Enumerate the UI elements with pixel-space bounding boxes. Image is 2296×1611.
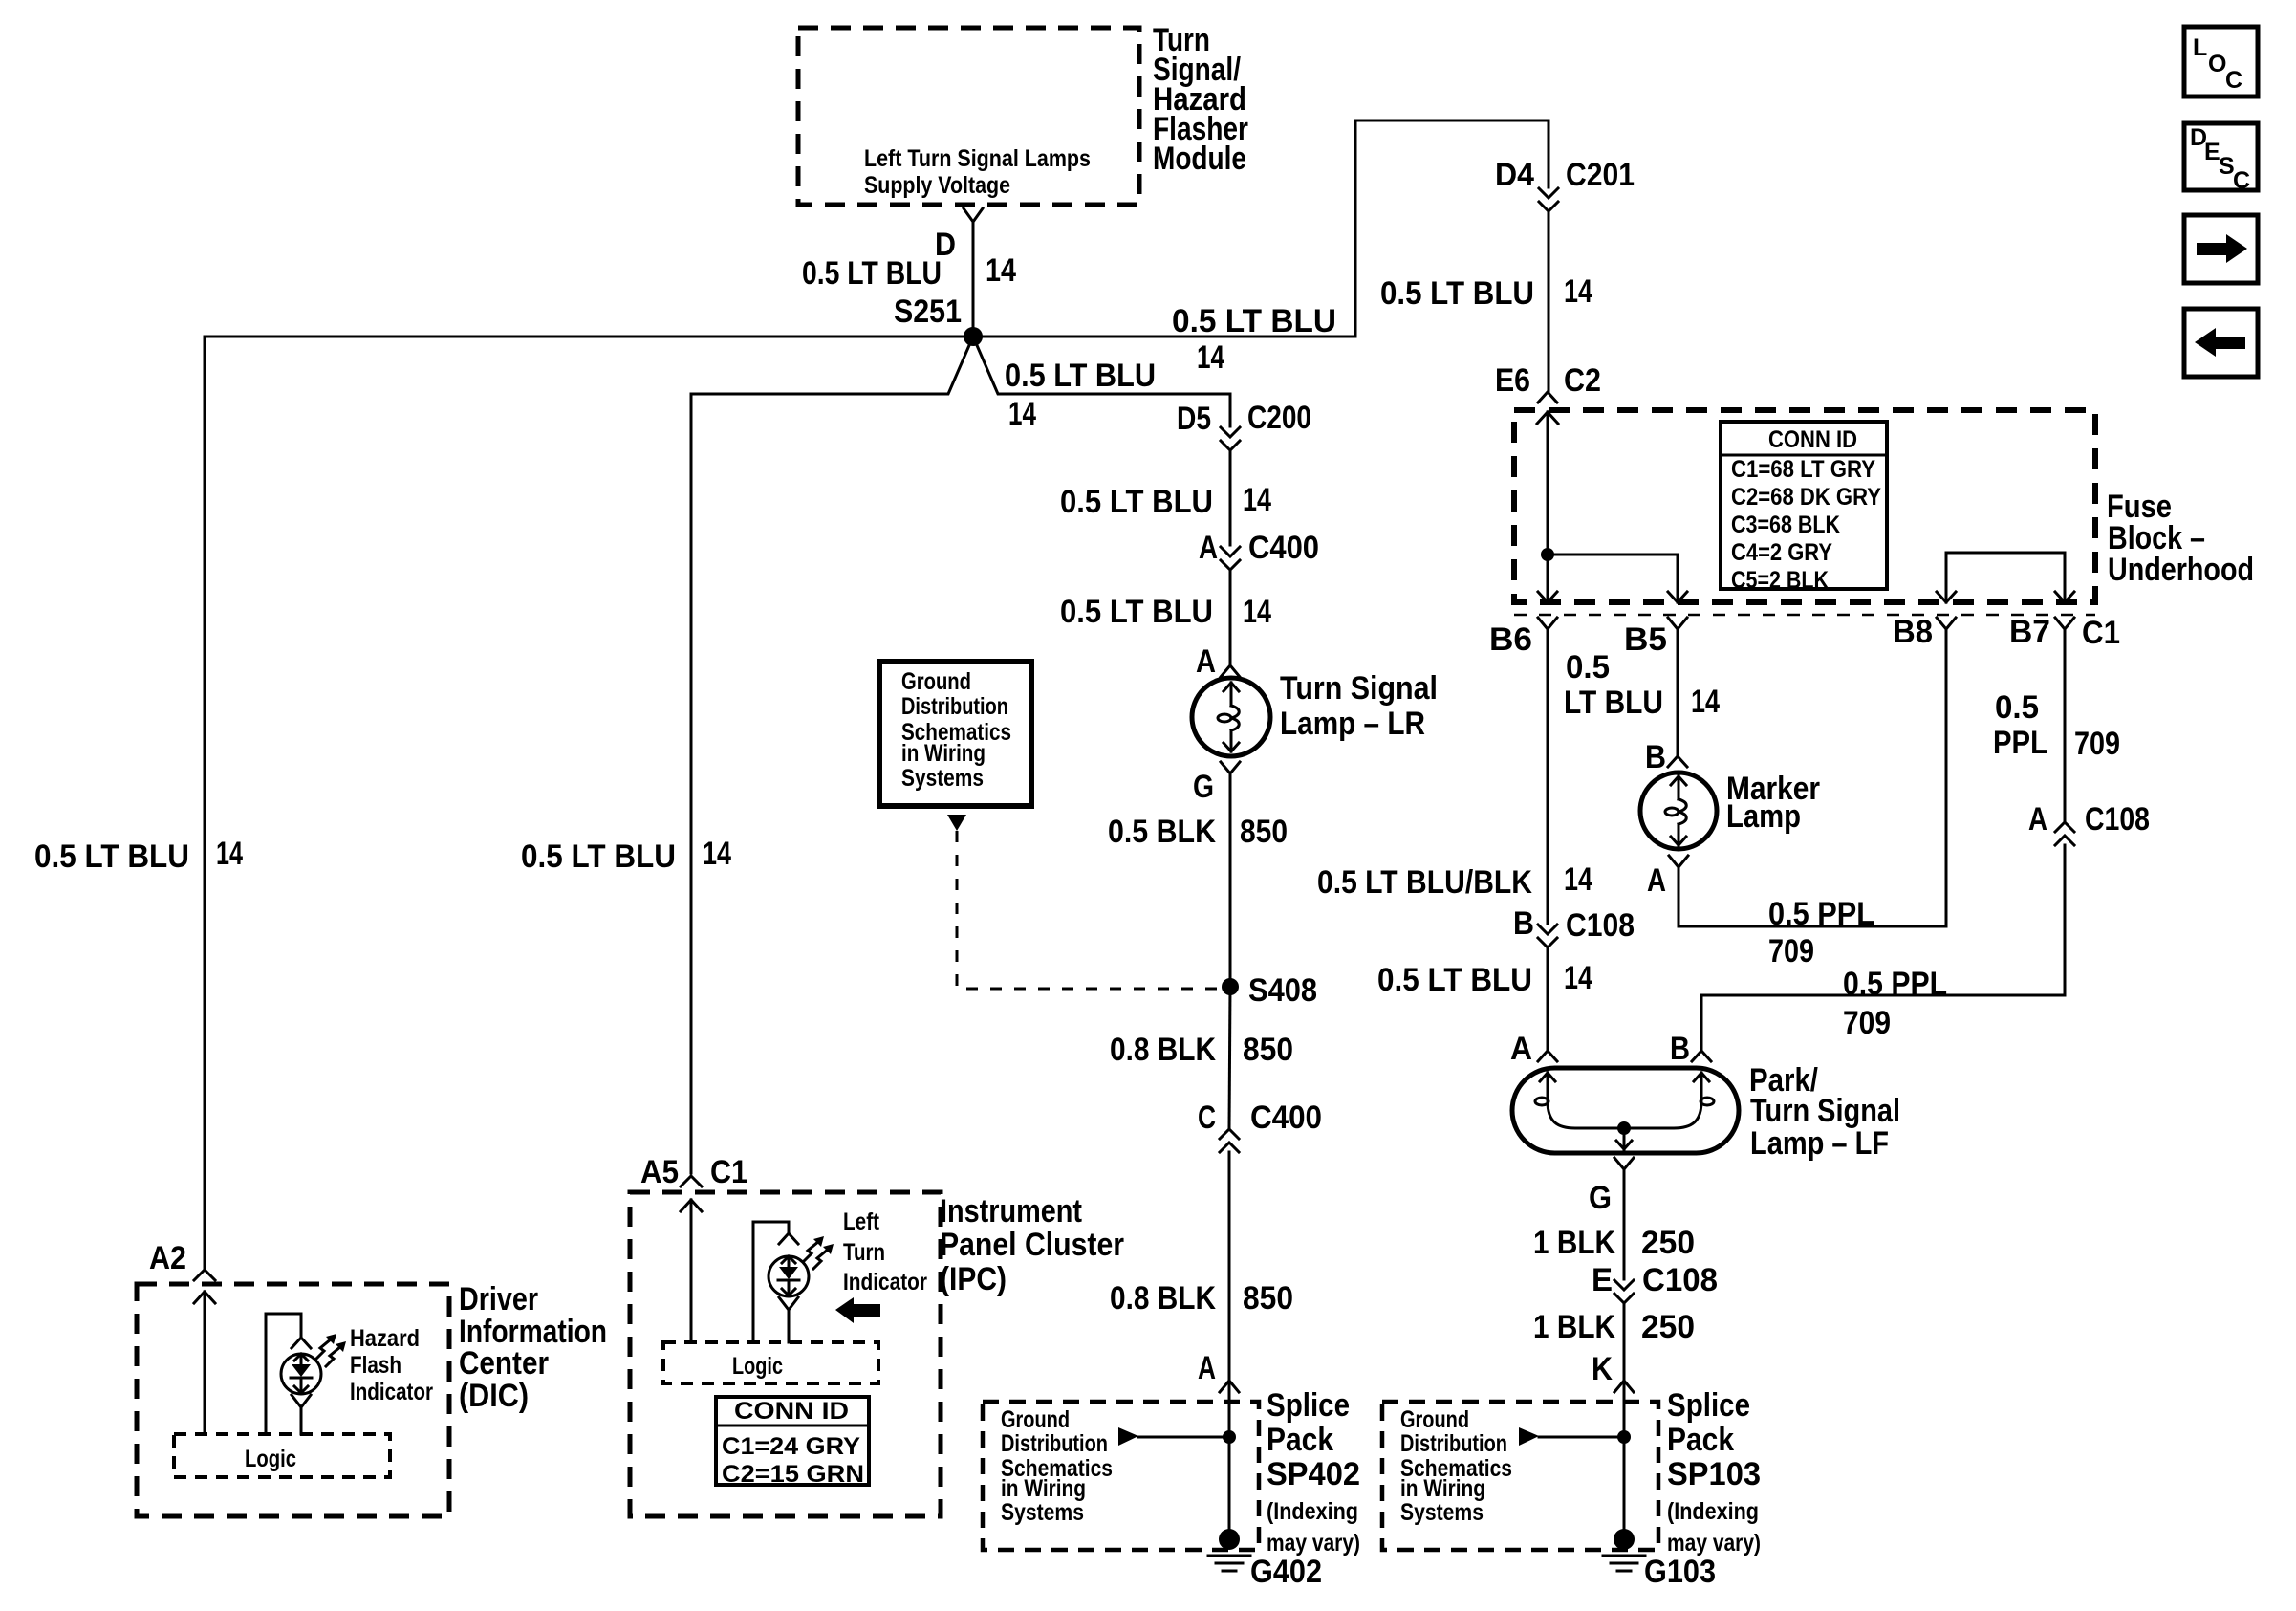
wire: C400 to Turn Signal Lamp LR pin A — [1060, 570, 1271, 665]
svg-text:Driver: Driver — [459, 1281, 538, 1317]
svg-text:Center: Center — [459, 1345, 549, 1382]
svg-text:B: B — [1513, 905, 1534, 942]
wire: fuse block internal junction to pin B5 (arrow down) — [1548, 555, 1687, 602]
svg-text:Lamp – LR: Lamp – LR — [1280, 706, 1425, 742]
svg-text:0.8 BLK: 0.8 BLK — [1110, 1032, 1216, 1068]
table: CONN ID (IPC) — [716, 1397, 869, 1488]
svg-text:A: A — [1510, 1031, 1532, 1067]
svg-text:Systems: Systems — [901, 765, 984, 792]
svg-text:Supply Voltage: Supply Voltage — [864, 172, 1010, 199]
svg-text:in Wiring: in Wiring — [1001, 1475, 1086, 1502]
svg-text:L: L — [2193, 34, 2207, 61]
svg-text:1 BLK: 1 BLK — [1533, 1309, 1615, 1345]
connector C201 pin D4 (double chevron) — [1495, 157, 1635, 211]
fuse block: Fuse Block - Underhood (dashed box) — [1514, 410, 2095, 615]
wire: C108 pin A to Park/Turn Signal Lamp LF pin B — [1701, 845, 2065, 1051]
wire: S408 down to connector C400 pin C — [1110, 987, 1293, 1128]
wire: fuse block internal E6 entry arrow down to junction — [1537, 412, 1558, 555]
pin B5 terminal of fuse block connector C1 — [1624, 618, 1687, 658]
svg-text:A: A — [2028, 801, 2047, 838]
pin E6 / C2 terminal at fuse block — [1495, 362, 1601, 403]
svg-text:B6: B6 — [1489, 621, 1532, 658]
svg-text:C2: C2 — [1564, 362, 1601, 399]
pin B6 terminal of fuse block connector C1 — [1489, 618, 1557, 658]
dashed reference link to S408 — [957, 831, 1222, 989]
svg-text:0.5 LT BLU: 0.5 LT BLU — [521, 838, 676, 875]
svg-text:Ground: Ground — [1400, 1406, 1469, 1433]
svg-text:E: E — [1592, 1262, 1613, 1298]
logic block of DIC (dashed box) — [174, 1434, 390, 1477]
svg-text:C: C — [2225, 67, 2242, 94]
svg-text:B: B — [1645, 739, 1666, 775]
svg-text:A5: A5 — [640, 1154, 679, 1190]
svg-text:0.5 LT BLU/BLK: 0.5 LT BLU/BLK — [1317, 864, 1532, 901]
note pointer triangle — [947, 815, 966, 831]
svg-text:A: A — [1196, 643, 1216, 680]
label: Park/Turn Signal Lamp - LF — [1749, 1062, 1900, 1162]
svg-text:0.5 LT BLU: 0.5 LT BLU — [1380, 275, 1534, 312]
label: Hazard Flash Indicator — [350, 1325, 433, 1405]
pin B terminal of Marker Lamp — [1645, 739, 1687, 775]
wire: B6 down to connector C108 pin B — [1317, 629, 1592, 924]
svg-text:Splice: Splice — [1267, 1387, 1350, 1424]
pin A terminal of Park/Turn Signal Lamp LF — [1510, 1031, 1557, 1067]
svg-text:Instrument: Instrument — [940, 1193, 1082, 1230]
svg-text:CONN ID: CONN ID — [734, 1398, 849, 1425]
logic block of IPC (dashed box) — [663, 1342, 878, 1383]
pin B7 terminal of fuse block connector C1 — [2009, 614, 2120, 651]
wire: IPC internal A5 entry arrow down to Logic — [681, 1200, 702, 1342]
connector C400 pin A (double chevron) — [1199, 530, 1319, 570]
label: Driver Information Center (DIC) — [459, 1281, 607, 1414]
wire: lamp LR pin G down to splice S408 — [1108, 773, 1288, 987]
label: Splice Pack SP402 — [1267, 1387, 1360, 1557]
svg-text:Hazard: Hazard — [350, 1325, 420, 1352]
svg-text:C: C — [1198, 1099, 1216, 1136]
connector C108 pin E (double chevron down) — [1592, 1262, 1718, 1303]
wire: fuse block internal junction to pin B6 (arrow down) — [1538, 555, 1557, 602]
legend right-arrow box — [2184, 215, 2258, 283]
svg-text:Ground: Ground — [1001, 1406, 1070, 1433]
svg-text:C200: C200 — [1247, 400, 1311, 436]
svg-text:Pack: Pack — [1667, 1422, 1734, 1458]
svg-text:(IPC): (IPC) — [940, 1261, 1007, 1297]
module U3: Instrument Panel Cluster IPC (dashed box) — [630, 1192, 941, 1516]
LED D1: Hazard Flash Indicator — [266, 1314, 346, 1434]
svg-text:14: 14 — [216, 836, 243, 872]
pin G terminal of Park/Turn Signal Lamp LF — [1589, 1158, 1634, 1216]
svg-text:C1=24 GRY: C1=24 GRY — [722, 1433, 860, 1460]
svg-text:S251: S251 — [894, 294, 962, 330]
svg-text:Flash: Flash — [350, 1352, 401, 1379]
svg-text:850: 850 — [1240, 814, 1288, 850]
svg-text:C4=2 GRY: C4=2 GRY — [1731, 539, 1832, 566]
svg-text:709: 709 — [1768, 933, 1814, 969]
ground G402 — [1208, 1529, 1322, 1590]
svg-text:14: 14 — [1564, 273, 1592, 310]
wire: S251 left to DIC pin A2 — [34, 337, 973, 1268]
wire: S251 fork right branch to connector C200 pin D5 — [973, 337, 1230, 432]
LED D2: Left Turn Indicator — [753, 1222, 834, 1342]
svg-text:D5: D5 — [1177, 401, 1211, 437]
svg-text:may vary): may vary) — [1667, 1530, 1761, 1557]
connector C200 pin D5 (double chevron) — [1177, 400, 1311, 450]
svg-text:in Wiring: in Wiring — [1400, 1475, 1485, 1502]
svg-text:Lamp – LF: Lamp – LF — [1750, 1125, 1889, 1162]
svg-text:850: 850 — [1243, 1032, 1293, 1068]
svg-text:B: B — [1670, 1031, 1690, 1067]
svg-text:Ground: Ground — [901, 668, 971, 695]
svg-text:C108: C108 — [1642, 1262, 1718, 1298]
svg-text:Distribution: Distribution — [1400, 1430, 1507, 1457]
ground G103 — [1603, 1529, 1716, 1590]
pin B terminal of Park/Turn Signal Lamp LF — [1670, 1031, 1711, 1067]
svg-text:LT BLU: LT BLU — [1564, 685, 1663, 721]
pin G terminal of Turn Signal Lamp LR — [1193, 762, 1240, 805]
svg-text:O: O — [2208, 51, 2226, 77]
svg-text:C108: C108 — [1566, 907, 1635, 944]
svg-text:G: G — [1589, 1180, 1612, 1216]
svg-text:Systems: Systems — [1001, 1499, 1084, 1526]
svg-text:14: 14 — [1564, 960, 1592, 996]
svg-text:0.8 BLK: 0.8 BLK — [1110, 1280, 1216, 1317]
svg-text:Turn Signal: Turn Signal — [1750, 1093, 1900, 1129]
svg-text:0.5 PPL: 0.5 PPL — [1768, 896, 1874, 932]
svg-text:C1=68 LT GRY: C1=68 LT GRY — [1731, 456, 1875, 483]
svg-text:14: 14 — [1564, 861, 1592, 898]
legend left-arrow box — [2184, 309, 2258, 377]
label: Turn Signal Lamp - LR — [1280, 670, 1438, 742]
svg-text:S408: S408 — [1248, 972, 1317, 1009]
module U2: Driver Information Center DIC (dashed box) — [137, 1284, 449, 1516]
legend DESC box — [2184, 123, 2258, 194]
svg-text:C108: C108 — [2085, 801, 2150, 838]
lamp E3: Park/Turn Signal Lamp - LF (dual filament) — [1512, 1068, 1739, 1153]
wire: S251 fork left branch to IPC pin A5 — [521, 337, 973, 1173]
svg-text:C: C — [2233, 167, 2250, 194]
svg-text:0.5 BLK: 0.5 BLK — [1108, 814, 1216, 850]
pin A5 / C1 terminal of IPC — [640, 1154, 747, 1190]
svg-text:14: 14 — [1243, 482, 1271, 518]
svg-text:A: A — [1198, 1350, 1216, 1386]
svg-text:14: 14 — [1243, 594, 1271, 630]
svg-text:Turn: Turn — [843, 1239, 885, 1266]
svg-text:C3=68 BLK: C3=68 BLK — [1731, 512, 1840, 538]
pin A terminal at SP402 — [1198, 1350, 1239, 1392]
svg-text:C201: C201 — [1566, 157, 1635, 193]
svg-text:A: A — [1647, 862, 1666, 899]
svg-text:Module: Module — [1153, 141, 1246, 177]
label: Marker Lamp — [1726, 771, 1820, 835]
svg-text:C400: C400 — [1248, 530, 1319, 566]
svg-text:may vary): may vary) — [1267, 1530, 1360, 1557]
svg-text:Left: Left — [843, 1208, 880, 1235]
svg-text:Turn Signal: Turn Signal — [1280, 670, 1438, 707]
svg-text:14: 14 — [703, 836, 731, 872]
svg-text:Distribution: Distribution — [901, 693, 1008, 720]
svg-text:G103: G103 — [1644, 1554, 1716, 1590]
svg-text:CONN ID: CONN ID — [1768, 426, 1857, 453]
pin A terminal of Marker Lamp — [1647, 856, 1688, 899]
wire: C201 down to fuse block pin E6 — [1380, 211, 1592, 392]
svg-text:G: G — [1193, 769, 1214, 805]
splice S408 — [1222, 972, 1317, 1009]
svg-text:0.5: 0.5 — [1566, 649, 1610, 686]
svg-text:B8: B8 — [1893, 614, 1933, 650]
label: module title — [1153, 22, 1248, 177]
wire: lamp LF pin G down to connector C108 pin E — [1533, 1169, 1695, 1279]
svg-text:Systems: Systems — [1400, 1499, 1484, 1526]
svg-text:709: 709 — [2074, 726, 2120, 762]
svg-text:0.5: 0.5 — [1995, 689, 2039, 726]
svg-text:Lamp: Lamp — [1726, 798, 1801, 835]
pointer arrow (filled left arrow) in IPC — [835, 1297, 880, 1323]
svg-text:(Indexing: (Indexing — [1667, 1498, 1759, 1525]
pin B8 terminal of fuse block connector C1 — [1893, 614, 1956, 650]
svg-text:K: K — [1592, 1351, 1613, 1387]
note box: Ground Distribution Schematics in Wiring Systems — [879, 662, 1031, 806]
wire: fuse block internal link B8 to B7 (arrows down) — [1937, 553, 2074, 602]
connector C108 pin B (double chevron down) — [1513, 905, 1635, 947]
svg-text:0.5 LT BLU: 0.5 LT BLU — [1172, 303, 1336, 339]
label: Instrument Panel Cluster (IPC) — [940, 1193, 1124, 1297]
svg-text:0.5 LT BLU: 0.5 LT BLU — [1060, 484, 1213, 520]
pin D terminal of flasher module — [935, 208, 983, 263]
table: CONN ID (fuse block) — [1721, 422, 1887, 594]
svg-text:C2=68 DK GRY: C2=68 DK GRY — [1731, 484, 1881, 511]
svg-text:(DIC): (DIC) — [459, 1378, 529, 1414]
svg-text:Indicator: Indicator — [843, 1269, 927, 1295]
wire: B5 down to Marker Lamp pin B — [1564, 629, 1720, 756]
svg-text:Indicator: Indicator — [350, 1379, 433, 1405]
svg-text:Logic: Logic — [732, 1353, 783, 1380]
svg-text:Logic: Logic — [245, 1446, 296, 1472]
splice S251 — [894, 294, 983, 346]
svg-text:Panel Cluster: Panel Cluster — [940, 1227, 1124, 1263]
svg-text:Left Turn Signal Lamps: Left Turn Signal Lamps — [864, 145, 1091, 172]
module U1: Turn Signal/Hazard Flasher Module (dashed box) — [798, 28, 1139, 205]
pin K terminal at SP103 — [1592, 1351, 1634, 1392]
svg-text:1 BLK: 1 BLK — [1533, 1225, 1615, 1261]
svg-text:G402: G402 — [1250, 1554, 1322, 1590]
svg-text:0.5 PPL: 0.5 PPL — [1843, 966, 1947, 1002]
svg-text:B7: B7 — [2009, 614, 2050, 650]
svg-text:A: A — [1199, 530, 1218, 566]
svg-text:C400: C400 — [1250, 1099, 1322, 1136]
svg-text:250: 250 — [1641, 1225, 1695, 1261]
svg-text:A2: A2 — [149, 1240, 186, 1276]
pin A terminal of Turn Signal Lamp LR — [1196, 643, 1240, 680]
svg-text:0.5 LT BLU: 0.5 LT BLU — [802, 255, 942, 292]
svg-text:0.5 LT BLU: 0.5 LT BLU — [1377, 962, 1532, 998]
svg-text:0.5 LT BLU: 0.5 LT BLU — [1060, 594, 1213, 630]
wire: flasher pin D down to splice S251 — [802, 222, 1016, 337]
junction inside fuse block — [1541, 548, 1554, 561]
svg-text:14: 14 — [1197, 339, 1224, 376]
svg-text:B5: B5 — [1624, 621, 1667, 658]
wire: Marker Lamp pin A to fuse block pin B8 — [1679, 629, 1946, 969]
svg-text:in Wiring: in Wiring — [901, 740, 986, 767]
pin A2 terminal of DIC — [149, 1240, 215, 1280]
svg-text:C2=15 GRN: C2=15 GRN — [722, 1461, 864, 1488]
connector C400 pin C (double chevron up) — [1198, 1099, 1322, 1152]
svg-text:14: 14 — [986, 252, 1016, 289]
svg-text:850: 850 — [1243, 1280, 1293, 1317]
svg-text:E6: E6 — [1495, 362, 1530, 399]
wire: C200 to connector C400 pin A — [1060, 450, 1271, 545]
svg-text:709: 709 — [1843, 1005, 1891, 1041]
wire: C400 pin C down to Splice Pack SP402 pin A — [1110, 1152, 1293, 1539]
svg-text:PPL: PPL — [1993, 725, 2047, 761]
svg-text:Distribution: Distribution — [1001, 1430, 1108, 1457]
svg-text:250: 250 — [1641, 1309, 1695, 1345]
svg-text:Underhood: Underhood — [2108, 552, 2254, 588]
label: Fuse Block - Underhood — [2107, 489, 2254, 588]
label: Splice Pack SP103 — [1667, 1387, 1761, 1557]
lamp E2: Marker Lamp — [1640, 773, 1717, 849]
wire: B7 down to connector C108 pin A — [1993, 629, 2120, 821]
svg-text:D4: D4 — [1495, 157, 1534, 193]
svg-text:0.5 LT BLU: 0.5 LT BLU — [34, 838, 189, 875]
wire: DIC internal A2 entry arrow down to Logic — [194, 1292, 215, 1434]
connector C108 pin A (double chevron up) — [2028, 801, 2150, 845]
lamp E1: Turn Signal Lamp - LR — [1192, 678, 1270, 756]
legend LOC box — [2184, 27, 2258, 97]
wire: C108 pin E down to Splice Pack SP103 pin K — [1533, 1303, 1695, 1539]
svg-text:SP402: SP402 — [1267, 1456, 1360, 1492]
svg-text:SP103: SP103 — [1667, 1456, 1761, 1492]
svg-text:14: 14 — [1008, 396, 1036, 432]
SP103 internal pointer arrow and junction — [1519, 1427, 1631, 1446]
svg-text:(Indexing: (Indexing — [1267, 1498, 1358, 1525]
svg-text:C1: C1 — [710, 1154, 747, 1190]
label: Left Turn Indicator — [843, 1208, 927, 1295]
svg-text:Splice: Splice — [1667, 1387, 1750, 1424]
splice pack SP103 (dashed box) — [1382, 1402, 1658, 1550]
svg-text:14: 14 — [1691, 684, 1720, 720]
splice pack SP402 (dashed box) — [983, 1402, 1259, 1550]
svg-text:C1: C1 — [2082, 615, 2120, 651]
wire: C108 pin B to Park/Turn Signal Lamp LF pin A — [1377, 947, 1592, 1051]
svg-text:C5=2 BLK: C5=2 BLK — [1731, 567, 1829, 594]
svg-text:0.5 LT BLU: 0.5 LT BLU — [1005, 358, 1156, 394]
SP402 internal pointer arrow and junction — [1118, 1427, 1236, 1446]
wire: S251 right to fuse block pin E6 (via top corner) — [973, 120, 1549, 376]
svg-text:Pack: Pack — [1267, 1422, 1333, 1458]
